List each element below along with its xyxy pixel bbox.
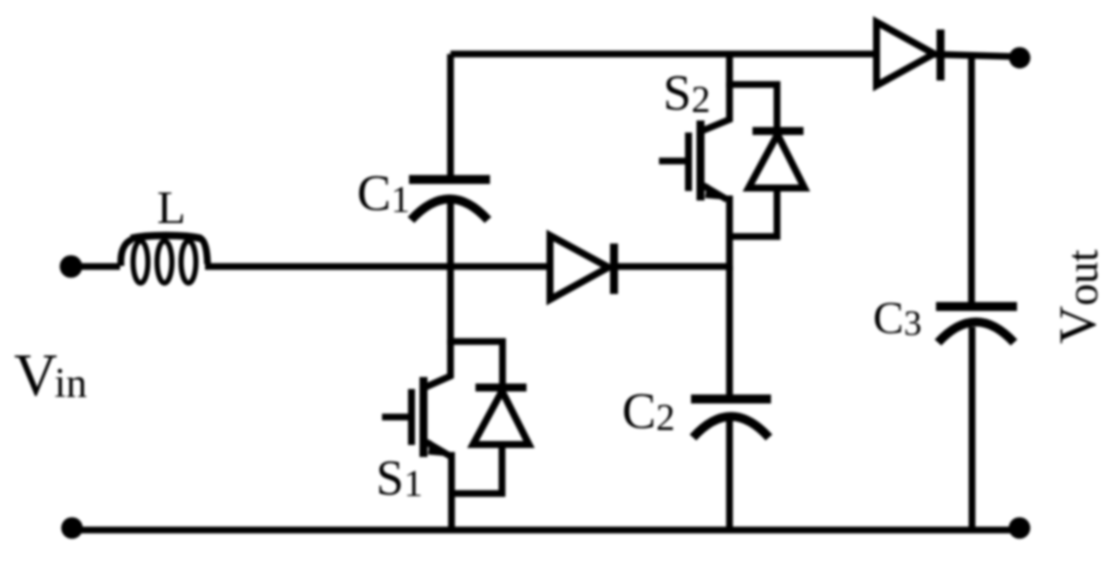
- anti-parallel diode of S2: [730, 85, 805, 237]
- capacitor C2: [691, 399, 771, 438]
- anti-parallel diode of S1: [451, 342, 530, 494]
- transistor S2 (IGBT): [659, 54, 730, 270]
- wire C2 to bottom rail: [726, 420, 733, 531]
- capacitor C1: [409, 180, 490, 221]
- transistor S1 (IGBT): [382, 340, 452, 531]
- wire output branch down to C3: [968, 55, 975, 308]
- svg-text:L: L: [157, 182, 186, 234]
- input terminal dot: [60, 255, 83, 278]
- wire input to inductor: [71, 263, 120, 270]
- bottom left terminal dot: [61, 517, 83, 539]
- wire node A down to S1: [447, 267, 454, 345]
- wire inductor to diode D1 (crosses node A): [205, 263, 550, 270]
- wire C3 to bottom rail: [969, 327, 976, 531]
- inductor L: [121, 236, 208, 284]
- capacitor C3: [936, 307, 1017, 343]
- wire D1 to node B: [611, 263, 732, 270]
- top rail wire: [451, 51, 875, 58]
- wire D2 to output dot: [934, 54, 1012, 56]
- diode D2 (top right): [877, 22, 941, 86]
- wire C1 bottom lead: [447, 201, 454, 270]
- wire node B down to C2: [726, 267, 733, 403]
- output terminal dot top: [1009, 47, 1030, 68]
- diode D1: [550, 236, 614, 300]
- wire C1 top lead: [447, 54, 454, 176]
- bottom rail wire: [72, 527, 1019, 534]
- svg-text:Vout: Vout: [1049, 249, 1107, 344]
- bottom right terminal dot: [1009, 517, 1031, 539]
